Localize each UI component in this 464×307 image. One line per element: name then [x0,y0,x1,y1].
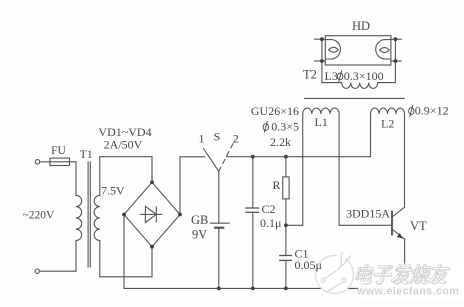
svg-text:VT: VT [410,219,427,233]
svg-text:2A/50V: 2A/50V [104,138,143,152]
svg-text:3DD15A: 3DD15A [346,207,390,221]
svg-text:L2: L2 [381,117,394,131]
svg-text:0.3×5: 0.3×5 [271,120,299,134]
svg-text:1: 1 [199,132,205,146]
svg-text:2.2k: 2.2k [270,135,291,149]
svg-text:T1: T1 [80,149,93,161]
svg-text:S: S [214,130,221,144]
svg-text:www.elecfans.com: www.elecfans.com [356,286,459,298]
svg-text:GB: GB [191,213,208,227]
svg-text:L1: L1 [315,115,328,129]
svg-text:0.05μ: 0.05μ [295,258,322,272]
svg-text:FU: FU [51,145,66,157]
svg-text:GU26×16: GU26×16 [251,104,299,118]
svg-text:0.3×100: 0.3×100 [344,69,384,83]
svg-text:R: R [273,178,281,192]
svg-text:2: 2 [233,132,239,146]
svg-text:0.1μ: 0.1μ [260,216,281,230]
svg-text:HD: HD [352,19,370,33]
svg-text:0.9×12: 0.9×12 [415,104,449,118]
svg-text:7.5V: 7.5V [101,184,125,198]
svg-text:C2: C2 [262,202,276,216]
svg-text:L3: L3 [325,69,338,83]
svg-text:~220V: ~220V [23,209,55,221]
svg-text:T2: T2 [303,68,317,82]
svg-text:9V: 9V [192,228,207,242]
